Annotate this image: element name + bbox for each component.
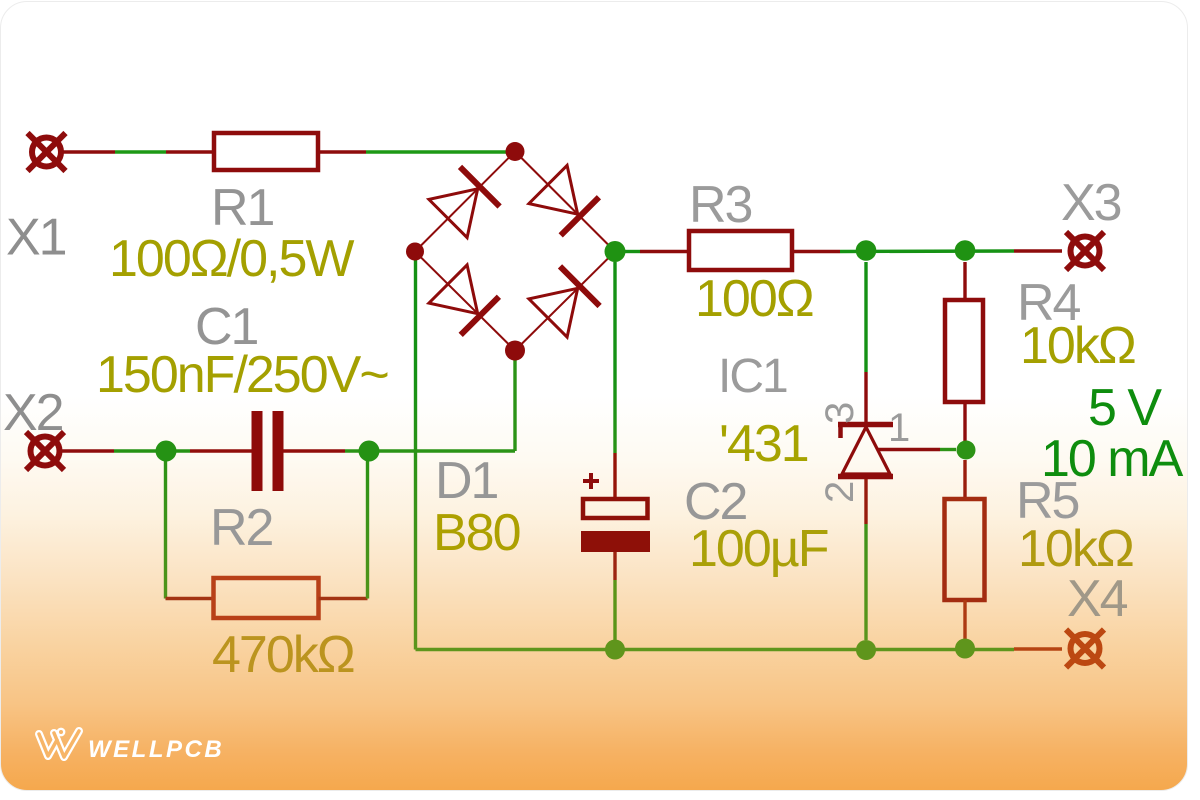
svg-text:X4: X4 (1067, 570, 1128, 628)
svg-text:3: 3 (818, 403, 862, 424)
svg-text:2: 2 (818, 482, 862, 503)
svg-text:5 V: 5 V (1088, 379, 1162, 437)
svg-text:100Ω/0,5W: 100Ω/0,5W (109, 230, 354, 288)
svg-text:100Ω: 100Ω (695, 270, 813, 328)
svg-text:IC1: IC1 (718, 350, 787, 403)
svg-text:1: 1 (888, 406, 909, 450)
svg-text:X2: X2 (3, 384, 63, 442)
svg-text:10kΩ: 10kΩ (1020, 317, 1135, 375)
svg-text:D1: D1 (435, 452, 498, 510)
svg-text:B80: B80 (433, 504, 520, 562)
svg-text:100µF: 100µF (689, 520, 828, 578)
svg-text:R3: R3 (689, 176, 752, 234)
svg-text:470kΩ: 470kΩ (212, 626, 354, 684)
svg-text:150nF/250V~: 150nF/250V~ (96, 346, 388, 404)
svg-text:R1: R1 (211, 179, 274, 237)
svg-text:'431: '431 (719, 415, 808, 473)
svg-text:WELLPCB: WELLPCB (88, 736, 224, 763)
svg-text:X1: X1 (6, 209, 66, 267)
svg-text:R2: R2 (210, 499, 273, 557)
svg-text:X3: X3 (1061, 174, 1121, 232)
